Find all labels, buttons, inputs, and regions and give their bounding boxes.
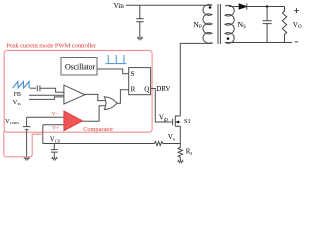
wire VLIMIT to comparator V- (27, 116, 64, 118)
transformer core (218, 4, 220, 44)
resistor Rs (178, 144, 182, 162)
ground (C2) (52, 157, 58, 160)
comparator U5 (red) (64, 111, 83, 131)
svg-text:Peak current mode PWM controll: Peak current mode PWM controller (6, 42, 97, 49)
wire primary bottom to drain (180, 43, 212, 117)
ground (VLIMIT) (24, 157, 30, 160)
capacitor C1 (compensation) (37, 85, 40, 91)
wire secondary bottom rail (225, 42, 292, 44)
capacitor C2 (VCS filter) (51, 144, 58, 158)
svg-text:V−: V− (52, 111, 59, 117)
wire diode to output (247, 6, 285, 8)
svg-text:Comparator: Comparator (83, 126, 114, 133)
node Vo labels (294, 8, 299, 13)
NMOS body arrow (176, 121, 179, 124)
capacitor C4 (output) (263, 7, 272, 43)
wire capacitor to EA input (40, 88, 64, 92)
svg-text:V+: V+ (52, 126, 59, 132)
wire secondary top to diode (229, 6, 239, 8)
wire comparator output to OR gate (83, 106, 105, 122)
op-amp U3 (error amplifier) (64, 85, 85, 104)
svg-text:Oscillator: Oscillator (65, 62, 96, 71)
wire OR output to R input (117, 90, 129, 103)
svg-text:S: S (131, 70, 135, 78)
ground (Rs) (178, 160, 184, 163)
resistor R1 (filter, on Vs line) (154, 142, 162, 146)
diode D1 (239, 4, 247, 10)
wire Vs line (sense) (43, 143, 155, 145)
svg-text:Q: Q (144, 86, 149, 94)
transistor S1 (NMOS) (155, 116, 180, 144)
wire oscillator to S input (97, 69, 129, 74)
wire Vin to transformer (126, 4, 212, 6)
wire V+ node down to Vs line (42, 125, 44, 144)
svg-text:FB: FB (14, 92, 21, 98)
transformer T1 primary winding (203, 5, 212, 44)
SR latch U2 (129, 68, 151, 95)
PWM controller box (4, 50, 152, 132)
svg-text:R: R (131, 86, 136, 94)
battery VLIMIT (23, 117, 31, 157)
oscillator U1 (61, 58, 97, 76)
wire FB to EA (29, 94, 63, 96)
wire EA output to OR gate (85, 94, 105, 100)
sawtooth ramp (blue) (13, 82, 30, 89)
transformer T1 secondary winding (225, 5, 234, 43)
svg-text:S1: S1 (184, 118, 191, 125)
svg-text:Vin: Vin (114, 2, 125, 10)
wire VCS to comparator V+ (43, 124, 64, 126)
wire ramp to capacitor (30, 87, 36, 89)
junction dot (266, 5, 268, 7)
OR gate U4 (104, 97, 117, 110)
resistor R2 (load) (282, 7, 286, 43)
wire Vss to EA (29, 97, 63, 100)
secondary phase dot (227, 37, 230, 40)
wire Q output / DRV (151, 89, 173, 123)
red wire VCS loop (4, 131, 43, 157)
clock pulses (blue) (106, 55, 127, 64)
svg-text:DRV: DRV (156, 85, 170, 93)
ground (C3) (137, 37, 143, 40)
capacitor C3 (input) (136, 5, 143, 36)
primary phase dot (209, 6, 212, 9)
